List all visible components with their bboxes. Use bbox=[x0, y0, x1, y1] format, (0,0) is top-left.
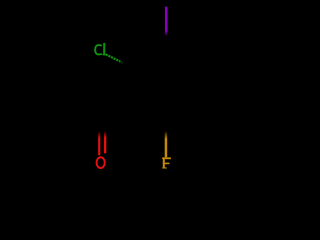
atom label Cl : letter l foot serif bbox=[103, 54, 107, 55]
molecule: halogenated benzaldehyde; carbon skeleton drawn black = invisible on black background bbox=[0, 0, 300, 176]
atom label O bbox=[97, 157, 105, 168]
aldehyde C=O double bond (red half), right line bbox=[104, 131, 106, 153]
bond C6-F (orange half, fades to black) bbox=[165, 131, 168, 157]
atom label F : middle bar bbox=[163, 163, 170, 165]
atom label F : bottom foot serif bbox=[162, 167, 167, 168]
atom label I merged with bond C3-I (purple half, fades to black) bbox=[165, 7, 168, 37]
atom label Cl : letter C bbox=[95, 45, 102, 54]
atom label Cl : letter l bbox=[103, 43, 105, 55]
aldehyde C=O double bond (red half), left line bbox=[98, 131, 100, 155]
atom label F : stem bbox=[163, 157, 165, 168]
atom label F : top bar bbox=[162, 157, 171, 159]
bond C2-Cl (green half, fades to black) bbox=[106, 54, 124, 63]
